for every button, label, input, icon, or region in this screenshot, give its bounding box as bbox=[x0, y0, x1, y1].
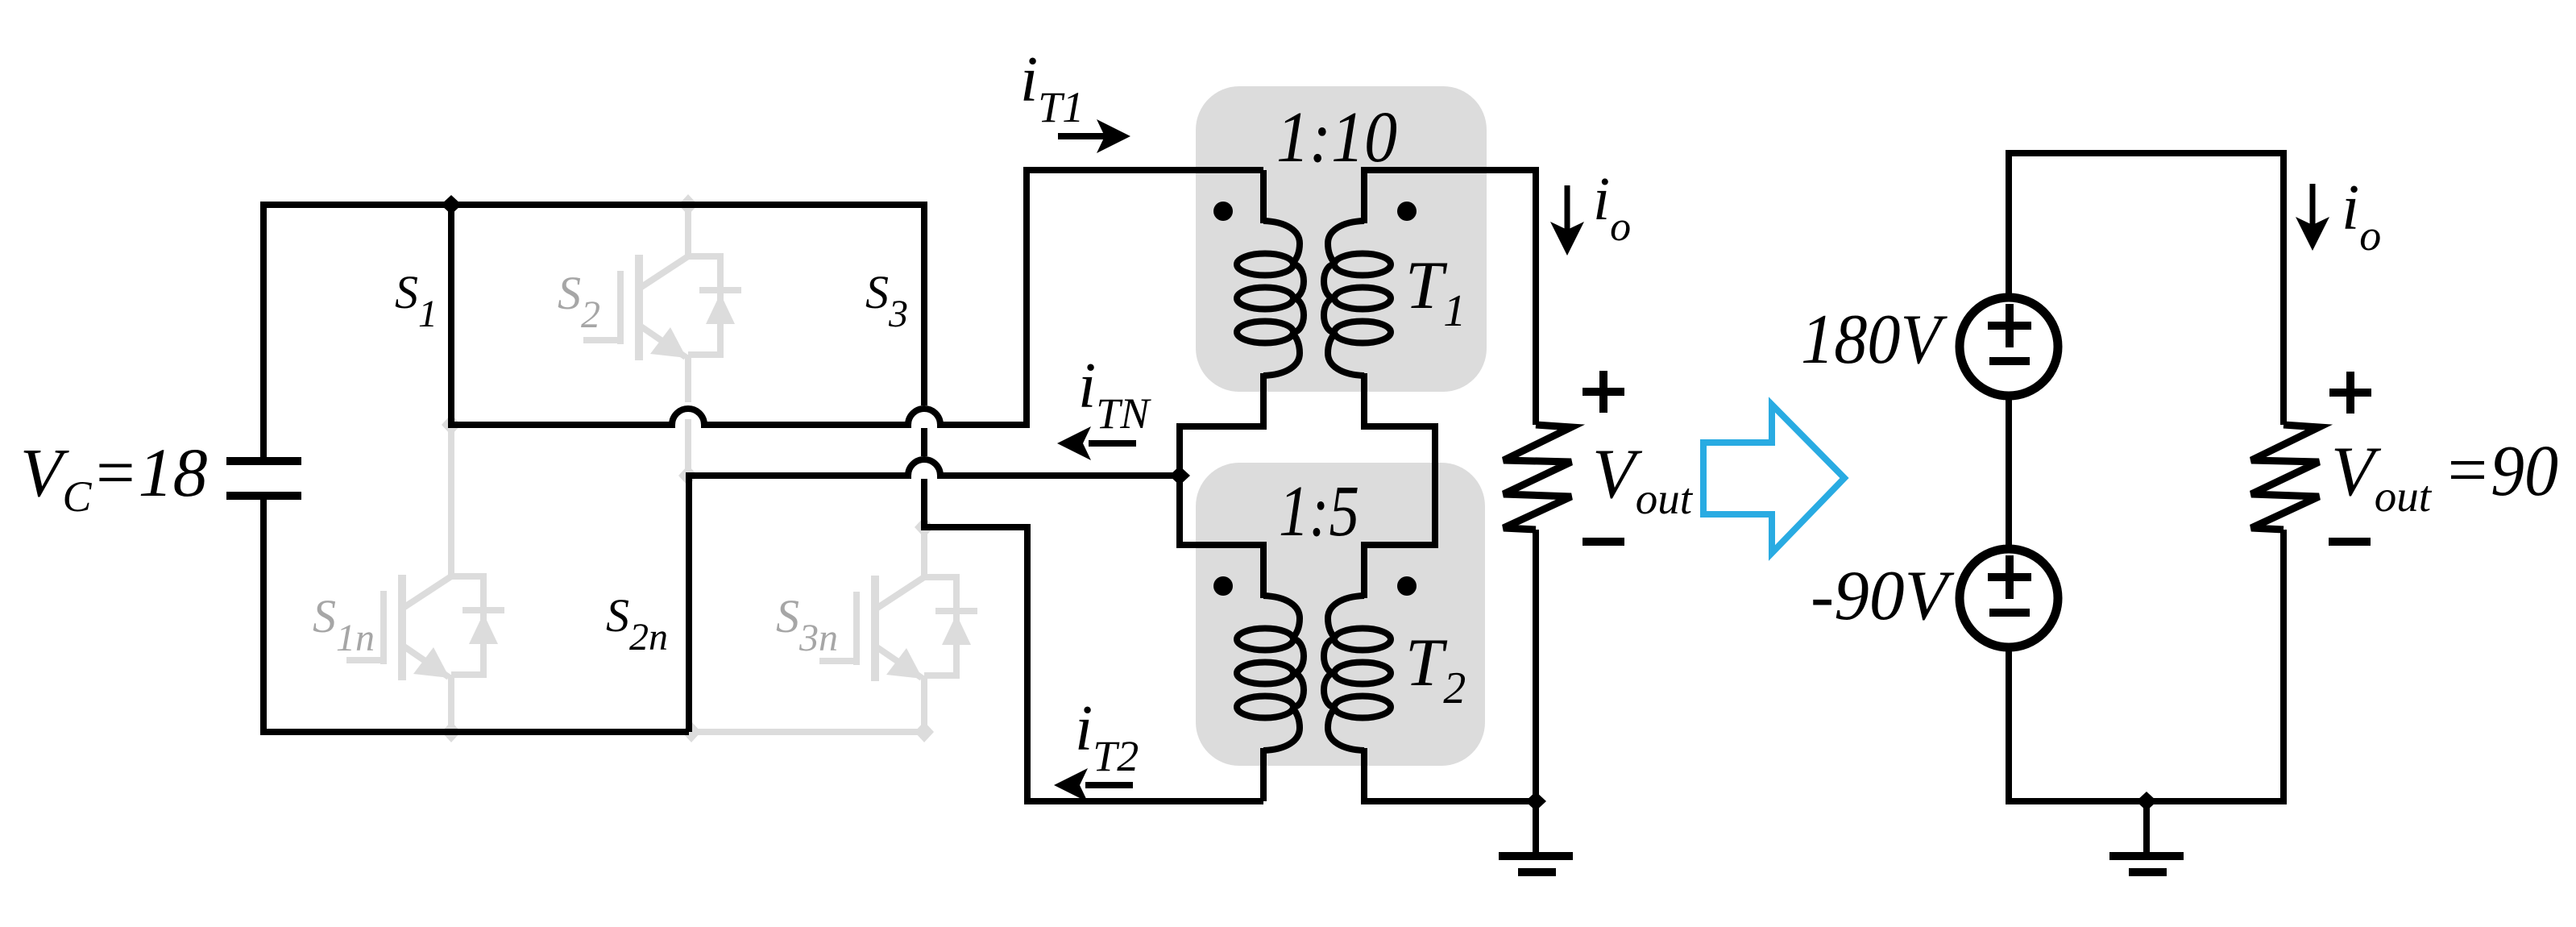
plus sign right output bbox=[2329, 389, 2371, 397]
svg-text:Vout: Vout bbox=[1592, 435, 1694, 523]
voltage source V1 180V circle bbox=[1960, 297, 2058, 396]
transistor S3n gate plate bbox=[853, 592, 860, 665]
svg-text:1:10: 1:10 bbox=[1276, 98, 1397, 177]
wire primary-side hook T1 bottom to T2 top bbox=[1180, 373, 1263, 598]
svg-text:=: = bbox=[2443, 431, 2491, 509]
transistor S2 collector diagonal bbox=[639, 256, 688, 289]
voltage source V2 minus sign bbox=[1989, 609, 2030, 617]
wire ground stub right bbox=[2143, 801, 2150, 853]
wire S3 vertical segments (gaps under hops) bbox=[921, 205, 927, 405]
svg-text:S3: S3 bbox=[865, 266, 908, 335]
transistor S3n emitter diagonal bbox=[876, 646, 922, 678]
svg-text:-90V: -90V bbox=[1811, 557, 1955, 635]
wire between sources bbox=[2006, 400, 2012, 545]
svg-text:S2: S2 bbox=[558, 267, 600, 336]
voltage source V1 plus sign bbox=[1988, 322, 2031, 330]
node iTN neutral junction bbox=[1169, 466, 1190, 485]
transistor S2 emitter diagonal bbox=[640, 326, 686, 357]
ground left bar 2 bbox=[1518, 868, 1556, 876]
wire secondary-side hook T1 bottom to T2 top bbox=[1364, 373, 1435, 598]
GRAY LAYER bbox=[346, 205, 977, 732]
wire resistor bottom to ground node bbox=[1533, 530, 1539, 801]
gray junction diamond S3n emitter bbox=[915, 721, 934, 742]
capacitor VC top plate bbox=[226, 457, 301, 465]
transistor S1n diode branch bbox=[451, 576, 483, 675]
svg-text:io: io bbox=[1593, 165, 1631, 250]
transformer T2 background box bbox=[1196, 463, 1485, 766]
transistor S1n diode triangle bbox=[469, 613, 498, 644]
transistor S1n collector lead bbox=[448, 425, 454, 576]
wire ground stub left circuit bbox=[1533, 801, 1539, 853]
svg-text:iTN: iTN bbox=[1078, 351, 1151, 438]
svg-text:Vout: Vout bbox=[2331, 433, 2433, 521]
node output ground junction bbox=[1525, 792, 1546, 811]
current arrow io left bbox=[1550, 185, 1584, 256]
node S1 top junction bbox=[441, 195, 462, 214]
resistor Vout (left) bbox=[1504, 425, 1571, 530]
transformer T1 primary winding bbox=[1237, 221, 1304, 376]
transistor S2 diode triangle bbox=[706, 293, 735, 324]
transistor S1n main bar bbox=[398, 575, 406, 680]
gray junction diamond S1n emitter bbox=[442, 721, 461, 742]
current arrow iT1 bbox=[1058, 119, 1130, 153]
svg-text:S1: S1 bbox=[395, 266, 438, 335]
transformer T2 secondary winding bbox=[1324, 596, 1391, 750]
transistor S1n emitter arrowhead bbox=[413, 647, 450, 678]
current arrow iTN bbox=[1057, 426, 1136, 460]
gray junction diamond S2 emitter bbox=[678, 465, 698, 486]
minus sign right output bbox=[2329, 538, 2371, 546]
transistor S1n gate plate bbox=[380, 591, 387, 664]
transistor S1n diode cathode bar bbox=[463, 607, 504, 613]
transformer T1 secondary winding bbox=[1324, 221, 1391, 376]
voltage source V1 minus sign bbox=[1989, 357, 2030, 365]
svg-text:iT1: iT1 bbox=[1020, 44, 1084, 131]
transformer T1 background box bbox=[1196, 86, 1487, 392]
transistor S3n diode branch bbox=[924, 577, 956, 676]
wire switch S1 branch and rail to T1 primary with hops bbox=[451, 170, 1263, 425]
gray bottom rail segment (S2n corner to S3n emitter) bbox=[689, 729, 924, 735]
svg-text:VC=18: VC=18 bbox=[20, 434, 208, 521]
transistor S3n diode triangle bbox=[942, 614, 971, 645]
svg-text:S1n: S1n bbox=[313, 590, 375, 659]
transistor S3n collector diagonal bbox=[875, 577, 924, 609]
node right circuit ground junction bbox=[2136, 792, 2157, 811]
wire T1 primary top lead bbox=[1260, 170, 1267, 223]
svg-text:iT2: iT2 bbox=[1075, 693, 1139, 780]
transistor S2 collector lead bbox=[685, 205, 691, 256]
polarity dot T2 secondary bbox=[1397, 576, 1417, 596]
svg-text:180V: 180V bbox=[1801, 301, 1948, 379]
transistor S2 gate lead bbox=[583, 337, 620, 343]
ground right bar 1 bbox=[2109, 852, 2184, 860]
RIGHT EQUIVALENT CIRCUIT bbox=[2009, 153, 2284, 853]
wire right circuit top bbox=[2009, 153, 2284, 425]
transistor S2 main bar bbox=[635, 255, 643, 360]
wire source2 to bottom and resistor bottom bbox=[2009, 530, 2284, 801]
resistor Vout (right) bbox=[2251, 425, 2319, 530]
svg-text:S2n: S2n bbox=[606, 589, 668, 659]
BLACK WIRES bbox=[263, 170, 1536, 853]
wire left rail top (cap to top-left corner) bbox=[263, 205, 927, 458]
wire T1 secondary top lead and output top bbox=[1364, 170, 1536, 425]
transistor S1n emitter diagonal bbox=[403, 646, 449, 677]
gray junction diamond S3n top bbox=[915, 517, 934, 538]
current arrow io right bbox=[2296, 184, 2329, 251]
polarity dot T2 primary bbox=[1213, 576, 1233, 596]
ground right bar 2 bbox=[2129, 868, 2167, 876]
transformer T2 primary winding bbox=[1237, 596, 1304, 750]
transistor S2 diode branch bbox=[688, 256, 720, 355]
svg-text:1:5: 1:5 bbox=[1279, 472, 1359, 551]
transistor S1n gate lead bbox=[346, 657, 384, 663]
svg-text:90: 90 bbox=[2491, 431, 2558, 511]
transistor S3n collector lead bbox=[921, 527, 927, 577]
gray junction diamond S2n bottom bbox=[682, 721, 701, 742]
transistor S2 emitter arrowhead bbox=[650, 327, 687, 358]
voltage source V2 plus sign bbox=[1988, 573, 2031, 581]
current arrow iT2 bbox=[1054, 768, 1133, 802]
transistor S2 diode cathode bar bbox=[699, 287, 741, 293]
gray junction diamond S2 top bbox=[678, 194, 698, 215]
polarity dot T1 primary bbox=[1213, 202, 1233, 221]
wire S3 to T2 primary bottom bbox=[924, 479, 1263, 801]
wire T2 primary bottom lead bbox=[1260, 748, 1267, 801]
transistor S3n gate lead bbox=[819, 658, 857, 664]
transistor S3n emitter lead bbox=[921, 676, 927, 732]
gray junction diamond S1n top bbox=[442, 414, 461, 435]
svg-text:S3n: S3n bbox=[776, 590, 838, 659]
minus sign left output bbox=[1583, 538, 1624, 546]
transistor S1n emitter lead bbox=[448, 675, 454, 732]
svg-text:io: io bbox=[2342, 173, 2381, 260]
transistor S2 gate plate bbox=[617, 271, 624, 344]
voltage source V2 -90V circle bbox=[1960, 549, 2058, 647]
cyan block arrow bbox=[1703, 405, 1844, 553]
wire T2 secondary bottom lead to output bottom bbox=[1364, 748, 1536, 801]
capacitor VC bottom plate bbox=[226, 492, 301, 500]
transistor S2 emitter lead (gap at wire hop) bbox=[685, 355, 691, 402]
transistor S3n diode cathode bar bbox=[935, 608, 977, 614]
transistor S3n emitter arrowhead bbox=[886, 648, 923, 679]
ground left bar 1 bbox=[1499, 852, 1573, 860]
plus sign left output bbox=[1583, 388, 1624, 396]
polarity dot T1 secondary bbox=[1397, 202, 1417, 221]
transistor S3n main bar bbox=[871, 576, 879, 681]
transistor S1n collector diagonal bbox=[402, 576, 451, 609]
wire S2n branch and neutral rail iTN with hop bbox=[689, 459, 1180, 732]
wire capacitor bottom to bottom rail bbox=[263, 500, 689, 732]
